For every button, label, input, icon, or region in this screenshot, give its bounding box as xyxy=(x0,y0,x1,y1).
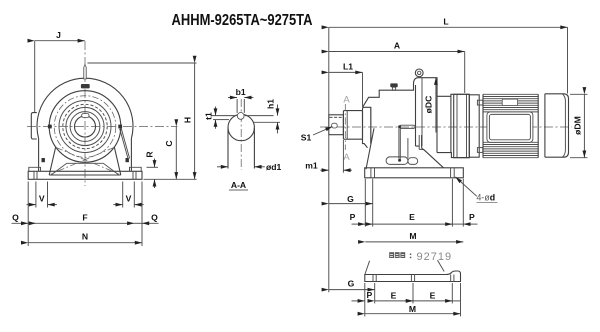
flange ring xyxy=(469,95,479,157)
right lower bolt xyxy=(126,158,129,162)
dimension m1 xyxy=(342,140,344,173)
top vent pin xyxy=(84,64,87,79)
svg-text:øDM: øDM xyxy=(573,116,583,135)
gearbox top profile xyxy=(363,78,470,108)
svg-text:E: E xyxy=(391,291,397,301)
svg-text:P: P xyxy=(350,212,356,222)
svg-text:ød1: ød1 xyxy=(266,162,281,172)
svg-text:C: C xyxy=(164,140,174,146)
rear cap inner line xyxy=(563,94,566,157)
flange bolt bottom xyxy=(477,148,482,153)
dimension L1 xyxy=(362,72,364,106)
leader right xyxy=(438,260,445,271)
motor flange xyxy=(454,94,470,157)
gusset left edge xyxy=(49,147,56,176)
shaft keyway hidden line xyxy=(330,116,344,118)
pedestal right side xyxy=(130,139,132,172)
base plate side xyxy=(365,168,464,178)
svg-text:V: V xyxy=(126,194,132,204)
circle r26 xyxy=(59,101,111,153)
gearbox front block xyxy=(363,107,371,148)
dimension R xyxy=(147,166,159,168)
svg-text:A: A xyxy=(343,95,350,106)
flange inner line xyxy=(457,94,467,157)
output shaft xyxy=(329,115,344,135)
keyway circle xyxy=(237,113,244,120)
gusset right edge xyxy=(114,147,121,176)
housing body vertical line xyxy=(371,78,424,150)
dimension G upper xyxy=(372,179,374,227)
sub plate hole right xyxy=(451,275,454,282)
right side bolt xyxy=(118,125,122,129)
svg-text:A: A xyxy=(343,152,350,163)
pedestal right slant xyxy=(422,135,444,168)
svg-text:92719: 92719 xyxy=(417,251,453,263)
svg-text:J: J xyxy=(56,30,61,40)
gusset diagonal centerline 1 xyxy=(56,148,119,175)
base hole left xyxy=(371,168,375,178)
gusset bottom xyxy=(49,174,121,176)
oblong window right xyxy=(408,158,418,165)
gusset diagonal centerline 2 xyxy=(51,148,114,175)
svg-text:P: P xyxy=(469,212,475,222)
svg-text:4-ød: 4-ød xyxy=(477,192,496,202)
dimension L xyxy=(328,27,330,115)
svg-text:t1: t1 xyxy=(204,112,214,120)
svg-text:M: M xyxy=(409,231,416,241)
motor frame window xyxy=(487,112,533,142)
sub plate hole mid xyxy=(411,275,414,282)
dimension d1 xyxy=(217,166,228,168)
svg-text:b1: b1 xyxy=(236,87,246,97)
b1 extension lines xyxy=(237,99,244,113)
motor fins bottom xyxy=(483,142,538,157)
dimension E2 xyxy=(413,300,452,302)
top filler plug xyxy=(81,84,90,88)
svg-text:N: N xyxy=(82,232,88,242)
dimension E xyxy=(373,223,453,225)
svg-text:M: M xyxy=(409,304,416,314)
svg-text:H: H xyxy=(183,117,193,123)
section line A xyxy=(344,104,346,150)
left flat boss xyxy=(31,113,37,139)
right foot slot lines xyxy=(133,171,136,179)
svg-text:h1: h1 xyxy=(266,99,276,109)
base plate xyxy=(28,171,142,179)
vertical centerline xyxy=(84,41,86,186)
eye bolt xyxy=(415,69,423,77)
shaft side lines xyxy=(228,128,254,169)
housing outer circle arc xyxy=(37,78,133,138)
dimension C xyxy=(175,127,177,180)
shaft end oval xyxy=(332,123,338,128)
dimension F xyxy=(36,222,134,224)
bolt circle (dash-dot) xyxy=(54,96,116,158)
svg-text:E: E xyxy=(409,212,415,222)
h1 lower extension xyxy=(254,121,281,123)
right diagonal rod xyxy=(120,128,130,159)
flange bolt top xyxy=(477,100,482,105)
dimension E1 xyxy=(375,300,413,302)
svg-text:F: F xyxy=(82,213,87,223)
dimension h1 xyxy=(277,105,279,116)
sub plate outline xyxy=(365,271,461,282)
keyway line left xyxy=(211,115,237,117)
svg-text:P: P xyxy=(367,290,373,300)
section centerline xyxy=(240,99,242,170)
svg-text:V: V xyxy=(39,194,45,204)
vent plug on top xyxy=(390,83,397,87)
dimension J xyxy=(35,40,85,42)
dimension V right xyxy=(122,182,124,208)
bore keyway slot xyxy=(82,114,89,118)
dimension H xyxy=(88,62,197,64)
svg-text:L1: L1 xyxy=(343,62,353,72)
label 4-od xyxy=(455,177,476,196)
shaft circle xyxy=(228,114,254,140)
model text 92719 xyxy=(389,252,411,258)
svg-text:Q: Q xyxy=(151,213,158,223)
motor fins top xyxy=(483,94,538,112)
left lower bolt xyxy=(42,158,45,162)
terminal plate xyxy=(502,99,517,105)
base hole right xyxy=(451,168,455,178)
motor body sides xyxy=(483,94,538,157)
oblong window left xyxy=(386,157,408,165)
rear cap face lines xyxy=(544,94,546,157)
horizontal centerline xyxy=(27,126,178,128)
inner ridge xyxy=(51,163,119,175)
circle r19 xyxy=(66,107,104,145)
svg-text:m1: m1 xyxy=(305,161,318,171)
gearbox bottom profile xyxy=(416,78,470,158)
sub plate hole left xyxy=(373,275,376,282)
svg-text:Q: Q xyxy=(12,213,19,223)
dimension b1 xyxy=(228,97,237,99)
dimension G lower xyxy=(374,283,376,303)
shaft collar xyxy=(343,111,362,140)
dimension M lower xyxy=(365,313,461,315)
shaft end long extension xyxy=(328,135,330,292)
right foot pad xyxy=(130,167,142,171)
left side bolt xyxy=(48,125,52,129)
horizontal centerline xyxy=(320,126,572,128)
left foot slot lines xyxy=(34,171,37,179)
pedestal rib lines xyxy=(407,138,409,158)
tie stud xyxy=(400,125,415,128)
keyway line right xyxy=(245,115,274,117)
svg-text:S1: S1 xyxy=(301,133,312,143)
dimension DM xyxy=(570,93,588,95)
dimension DC xyxy=(435,78,437,133)
dimension V left xyxy=(35,182,37,208)
pedestal left side xyxy=(38,139,40,172)
S1 leader xyxy=(313,127,333,136)
dimension P E E row xyxy=(364,283,366,316)
svg-text:G: G xyxy=(347,194,354,204)
dimension t1 xyxy=(215,107,217,116)
rear cap xyxy=(545,94,569,157)
svg-text:E: E xyxy=(430,291,436,301)
svg-text:L: L xyxy=(443,16,448,26)
dimension M upper xyxy=(365,241,463,243)
t1 lower extension xyxy=(213,119,229,121)
svg-text:R: R xyxy=(145,151,155,158)
left foot pad xyxy=(29,167,41,171)
svg-text:A: A xyxy=(394,41,400,51)
flange circle xyxy=(49,91,121,163)
leader left xyxy=(365,261,370,275)
dimension P E P row xyxy=(364,179,366,227)
svg-text:G: G xyxy=(348,279,355,289)
dimension A xyxy=(464,52,466,94)
dimension Q F Q row xyxy=(27,182,29,247)
svg-text:A-A: A-A xyxy=(231,180,246,190)
dashed circle r22 xyxy=(63,104,107,148)
dimension N xyxy=(28,242,142,244)
svg-text:øDC: øDC xyxy=(424,96,434,114)
hub circle r15 xyxy=(70,112,100,142)
bore circle xyxy=(75,116,96,137)
svg-text:AHHM-9265TA~9275TA: AHHM-9265TA~9275TA xyxy=(172,12,313,29)
pedestal left slant xyxy=(366,128,374,169)
